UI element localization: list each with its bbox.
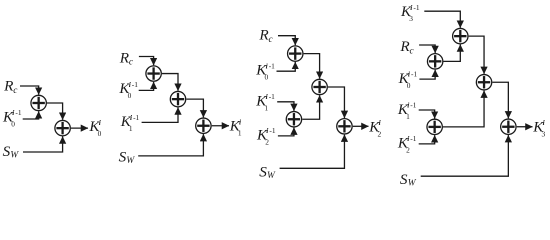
- wire R_c into adder X3a (down arrow): [278, 36, 295, 46]
- wire R_c into adder X2a (down arrow): [139, 57, 154, 66]
- label S_W (group 1): [3, 143, 20, 160]
- svg-text:0: 0: [407, 81, 411, 90]
- svg-text:1: 1: [406, 112, 410, 121]
- label S_W (group 3): [259, 164, 276, 181]
- svg-text:S: S: [400, 171, 408, 187]
- XOR adder X3a: [288, 46, 303, 61]
- label S_W (group 2): [119, 149, 136, 166]
- XOR adder X2b: [170, 91, 185, 106]
- wire X3c output into adder X3d (down arrow): [328, 87, 345, 118]
- svg-text:S: S: [3, 143, 11, 160]
- XOR adder X3d: [337, 119, 352, 134]
- svg-text:-1: -1: [269, 92, 275, 101]
- label K_2^(i-1) (group 4): [397, 134, 417, 154]
- svg-text:-1: -1: [411, 70, 417, 79]
- XOR adder X3b: [286, 112, 301, 127]
- wire S_W into adder X3d (up arrow): [280, 135, 345, 169]
- wire X4a output into adder X4c (down arrow): [469, 36, 484, 74]
- XOR adder X2c: [196, 118, 211, 133]
- label K_3^i output (group 4): [532, 118, 545, 138]
- label K_1^(i-1) (group 3): [255, 92, 275, 112]
- label R_c (group 2): [119, 49, 134, 67]
- wire X1b output arrow to K_0^i: [71, 127, 88, 129]
- wire K_1^(i-1) into adder X4d (down arrow): [419, 110, 435, 119]
- svg-text:-1: -1: [132, 80, 138, 89]
- label K_1^(i-1) (group 4): [397, 101, 417, 121]
- wire X4c output into adder X4e (down arrow): [492, 82, 508, 118]
- svg-text:-1: -1: [413, 3, 419, 12]
- svg-text:0: 0: [265, 73, 269, 82]
- wire X2c output arrow to K_1^i: [212, 125, 229, 127]
- wire K_0^(i-1) into adder X4b (up arrow): [419, 70, 435, 79]
- label K_3^(i-1) (group 4): [400, 3, 420, 23]
- svg-text:2: 2: [378, 129, 382, 138]
- svg-text:-1: -1: [133, 113, 139, 122]
- XOR adder X2a: [146, 66, 161, 81]
- svg-text:W: W: [10, 151, 19, 161]
- svg-text:0: 0: [11, 119, 15, 128]
- svg-text:-1: -1: [269, 62, 275, 71]
- XOR adder X4e: [501, 119, 516, 134]
- wire K_2^(i-1) into adder X3b (up arrow): [278, 128, 294, 136]
- svg-text:W: W: [126, 156, 135, 166]
- svg-text:1: 1: [265, 103, 269, 112]
- wire K_0^(i-1) into adder X2a (up arrow): [139, 82, 154, 91]
- label R_c (group 3): [258, 27, 273, 45]
- wire X1a output into adder X1b (down arrow): [47, 103, 63, 120]
- wire X4e output arrow to K_3^i: [517, 126, 533, 128]
- svg-text:3: 3: [542, 129, 546, 138]
- label K_0^(i-1) (group 1): [2, 108, 22, 128]
- wire S_W into adder X1b (up arrow): [23, 137, 63, 153]
- svg-text:1: 1: [238, 129, 242, 138]
- svg-text:2: 2: [406, 145, 410, 154]
- svg-text:0: 0: [98, 129, 102, 138]
- XOR adder X4d: [427, 119, 442, 134]
- wire X3d output arrow to K_2^i: [353, 125, 369, 127]
- label K_1^i output (group 2): [229, 118, 242, 138]
- svg-text:-1: -1: [15, 108, 21, 117]
- svg-text:-1: -1: [410, 101, 416, 110]
- label K_0^(i-1) (group 2): [118, 80, 138, 100]
- svg-text:-1: -1: [269, 126, 275, 135]
- svg-text:1: 1: [129, 124, 133, 133]
- wire K_0^(i-1) into adder X1a (up arrow): [23, 111, 39, 119]
- wire X4b output into adder X4a (up arrow): [444, 45, 461, 62]
- label K_0^(i-1) (group 4): [398, 70, 418, 90]
- XOR adder X1b: [55, 120, 70, 135]
- XOR adder X3c: [312, 79, 327, 94]
- XOR adder X1a: [31, 95, 46, 110]
- wire K_0^(i-1) into adder X3a (up arrow): [277, 62, 296, 71]
- XOR adder X4c: [476, 75, 491, 90]
- wire S_W into adder X4e (up arrow): [421, 135, 509, 176]
- label K_2^i output (group 3): [368, 118, 381, 138]
- wire S_W into adder X2c (up arrow): [138, 134, 203, 156]
- svg-text:W: W: [267, 171, 276, 181]
- label R_c (group 4): [399, 38, 414, 56]
- wire X2b output into adder X2c (down arrow): [186, 99, 203, 117]
- XOR adder X4b: [427, 54, 442, 69]
- wire X3b output into adder X3c (up arrow): [302, 95, 319, 119]
- label R_c (group 1): [3, 78, 18, 96]
- wire X4d output into adder X4c (up arrow): [443, 91, 484, 127]
- wire K_2^(i-1) into adder X4d (up arrow): [419, 135, 435, 144]
- svg-text:S: S: [259, 164, 267, 181]
- svg-text:-1: -1: [410, 134, 416, 143]
- svg-text:0: 0: [128, 91, 132, 100]
- wire X3a output into adder X3c (down arrow): [304, 54, 320, 79]
- wire X2a output into adder X2b (down arrow): [162, 74, 178, 91]
- wire K_3^(i-1) into adder X4a (down arrow): [424, 11, 460, 28]
- svg-text:2: 2: [265, 137, 269, 146]
- wire R_c into adder X1a (down arrow): [20, 86, 39, 95]
- XOR adder X4a: [453, 28, 468, 43]
- svg-text:S: S: [119, 149, 127, 166]
- label K_1^(i-1) (group 2): [120, 113, 140, 133]
- label K_2^(i-1) (group 3): [256, 126, 276, 146]
- wire R_c into adder X4b (down arrow): [419, 45, 435, 53]
- label S_W (group 4): [400, 171, 417, 188]
- label K_0^i output (group 1): [88, 118, 101, 138]
- wire K_1^(i-1) into adder X2b (up arrow): [142, 108, 178, 123]
- svg-text:W: W: [408, 179, 417, 187]
- label K_0^(i-1) (group 3): [255, 62, 275, 82]
- svg-text:3: 3: [409, 14, 413, 23]
- wire K_1^(i-1) into adder X3b (down arrow): [277, 102, 294, 111]
